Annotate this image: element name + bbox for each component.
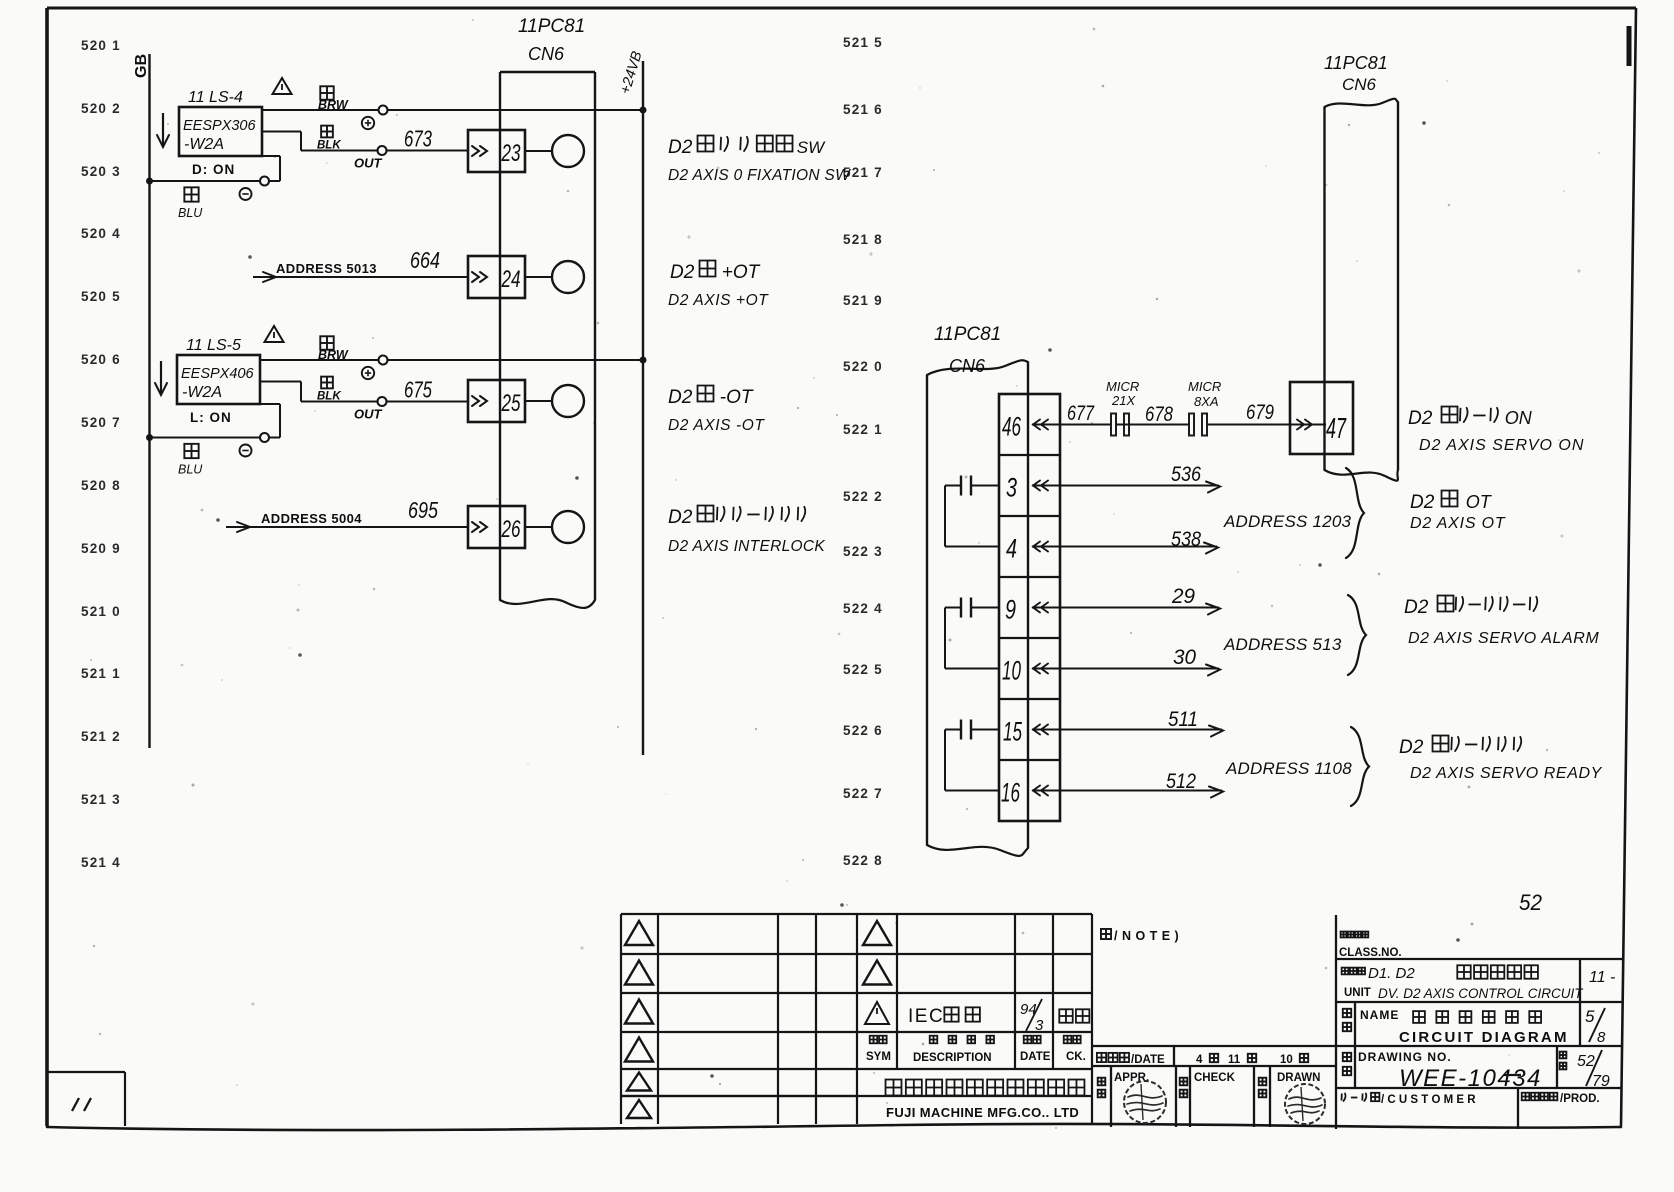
svg-text:DESCRIPTION: DESCRIPTION [913, 1052, 992, 1064]
svg-text:538: 538 [1171, 528, 1201, 551]
svg-text:D2: D2 [668, 137, 693, 158]
svg-text:520 2: 520 2 [81, 101, 121, 116]
svg-text:SYM: SYM [866, 1051, 891, 1063]
svg-text:MICR: MICR [1188, 379, 1221, 394]
svg-text:11PC81: 11PC81 [934, 324, 1001, 345]
svg-text:3: 3 [1035, 1017, 1044, 1034]
svg-text:4: 4 [1196, 1054, 1203, 1066]
svg-text:BLU: BLU [178, 206, 203, 220]
svg-text:D2 AXIS OT: D2 AXIS OT [1410, 515, 1506, 532]
svg-text:536: 536 [1171, 463, 1201, 486]
svg-text:521 9: 521 9 [843, 293, 883, 308]
svg-text:11 -: 11 - [1589, 969, 1615, 986]
svg-text:521 1: 521 1 [81, 666, 121, 681]
svg-text:BRW: BRW [318, 98, 349, 112]
svg-text:ADDRESS 1108: ADDRESS 1108 [1225, 759, 1352, 778]
svg-text:520 1: 520 1 [81, 38, 121, 53]
svg-text:BLK: BLK [317, 391, 341, 403]
svg-text:D2: D2 [670, 262, 695, 283]
svg-text:/ C U S T O M E R: / C U S T O M E R [1381, 1094, 1476, 1106]
svg-text:CN6: CN6 [949, 356, 986, 376]
svg-text:26: 26 [501, 516, 521, 543]
svg-text:+OT: +OT [722, 262, 761, 283]
svg-text:678: 678 [1145, 403, 1173, 426]
svg-text:-W2A: -W2A [184, 136, 224, 153]
svg-text:D1. D2: D1. D2 [1368, 965, 1415, 982]
svg-text:FUJI MACHINE MFG.CO.. LTD: FUJI MACHINE MFG.CO.. LTD [886, 1105, 1079, 1120]
svg-text:521 8: 521 8 [843, 232, 883, 247]
svg-text:520 7: 520 7 [81, 415, 121, 430]
svg-text:EESPX306: EESPX306 [183, 118, 256, 134]
svg-text:BRW: BRW [318, 348, 349, 362]
svg-text:16: 16 [1001, 778, 1021, 808]
svg-text:CHECK: CHECK [1194, 1072, 1236, 1084]
svg-text:521 6: 521 6 [843, 102, 883, 117]
svg-text:520 3: 520 3 [81, 164, 121, 179]
svg-text:CK.: CK. [1066, 1051, 1086, 1063]
svg-text:24: 24 [501, 266, 521, 293]
svg-text:673: 673 [404, 126, 432, 152]
svg-text:47: 47 [1326, 413, 1347, 445]
svg-text:L: ON: L: ON [190, 410, 232, 425]
svg-text:10: 10 [1280, 1054, 1293, 1066]
svg-text:3: 3 [1006, 473, 1017, 503]
svg-text:522 0: 522 0 [843, 359, 883, 374]
svg-text:52: 52 [1577, 1053, 1595, 1070]
svg-text:CN6: CN6 [1342, 75, 1377, 94]
svg-text:/PROD.: /PROD. [1560, 1093, 1600, 1105]
svg-text:D2: D2 [1408, 408, 1433, 429]
svg-text:25: 25 [501, 390, 521, 417]
svg-text:511: 511 [1168, 708, 1198, 731]
svg-text:ADDRESS 5013: ADDRESS 5013 [276, 261, 377, 276]
svg-text:D2: D2 [1399, 737, 1424, 758]
svg-text:ON: ON [1505, 408, 1533, 428]
svg-text:D2: D2 [1404, 597, 1429, 618]
svg-text:ADDRESS 1203: ADDRESS 1203 [1223, 512, 1351, 531]
svg-text:D2: D2 [668, 387, 693, 408]
svg-text:CLASS.NO.: CLASS.NO. [1339, 947, 1402, 959]
svg-text:15: 15 [1003, 717, 1023, 747]
svg-text:ADDRESS 5004: ADDRESS 5004 [261, 511, 362, 526]
svg-text:679: 679 [1246, 401, 1274, 424]
svg-text:/DATE: /DATE [1131, 1054, 1165, 1066]
svg-text:GB: GB [133, 54, 150, 78]
svg-text:520 6: 520 6 [81, 352, 121, 367]
svg-text:D2 AXIS INTERLOCK: D2 AXIS INTERLOCK [668, 538, 825, 555]
svg-text:OUT: OUT [354, 156, 383, 171]
svg-text:DV. D2 AXIS CONTROL CIRCUIT: DV. D2 AXIS CONTROL CIRCUIT [1378, 986, 1584, 1001]
svg-text:WEE-10434: WEE-10434 [1399, 1065, 1542, 1092]
svg-text:79: 79 [1592, 1073, 1610, 1090]
svg-text:10: 10 [1002, 656, 1021, 686]
svg-text:512: 512 [1166, 770, 1196, 793]
svg-text:521 4: 521 4 [81, 855, 121, 870]
svg-text:BLK: BLK [317, 140, 341, 152]
svg-text:521 5: 521 5 [843, 35, 883, 50]
svg-text:695: 695 [408, 497, 438, 523]
svg-text:D2 AXIS +OT: D2 AXIS +OT [668, 292, 769, 309]
svg-text:D2 AXIS SERVO READY: D2 AXIS SERVO READY [1410, 765, 1603, 782]
svg-text:DRAWN: DRAWN [1277, 1072, 1320, 1084]
svg-text:4: 4 [1006, 534, 1017, 564]
svg-text:D2 AXIS SERVO ALARM: D2 AXIS SERVO ALARM [1408, 630, 1599, 647]
svg-text:DRAWING NO.: DRAWING NO. [1358, 1050, 1452, 1064]
svg-text:CIRCUIT DIAGRAM: CIRCUIT DIAGRAM [1399, 1029, 1569, 1046]
svg-text:522 4: 522 4 [843, 601, 883, 616]
svg-text:8XA: 8XA [1194, 394, 1219, 409]
svg-text:-OT: -OT [720, 387, 754, 408]
svg-text:52: 52 [1519, 890, 1542, 915]
svg-text:521 3: 521 3 [81, 792, 121, 807]
svg-text:521 2: 521 2 [81, 729, 121, 744]
svg-text:EESPX406: EESPX406 [181, 366, 254, 382]
svg-text:46: 46 [1002, 412, 1022, 442]
svg-text:IEC: IEC [908, 1006, 944, 1027]
svg-text:29: 29 [1171, 585, 1195, 608]
svg-text:UNIT: UNIT [1344, 987, 1371, 999]
svg-text:675: 675 [404, 377, 432, 403]
svg-text:OT: OT [1466, 492, 1493, 512]
svg-text:520 4: 520 4 [81, 226, 121, 241]
svg-text:11: 11 [1228, 1054, 1241, 1066]
svg-text:522 2: 522 2 [843, 489, 883, 504]
svg-text:21X: 21X [1111, 393, 1136, 408]
svg-text:NAME: NAME [1360, 1008, 1399, 1022]
svg-text:D2 AXIS 0 FIXATION SW: D2 AXIS 0 FIXATION SW [668, 167, 851, 184]
svg-text:5: 5 [1585, 1007, 1595, 1026]
svg-text:521 0: 521 0 [81, 604, 121, 619]
svg-text:D: ON: D: ON [192, 162, 235, 177]
svg-text:8: 8 [1597, 1029, 1606, 1046]
svg-text:522 7: 522 7 [843, 786, 883, 801]
svg-text:9: 9 [1005, 595, 1016, 625]
svg-text:APPR.: APPR. [1114, 1072, 1149, 1084]
svg-text:D2 AXIS SERVO ON: D2 AXIS SERVO ON [1419, 437, 1584, 454]
svg-text:SW: SW [797, 138, 826, 157]
svg-text:520 5: 520 5 [81, 289, 121, 304]
svg-text:-W2A: -W2A [182, 384, 222, 401]
svg-text:677: 677 [1067, 402, 1095, 425]
svg-text:D2 AXIS -OT: D2 AXIS -OT [668, 417, 765, 434]
svg-text:11 LS-5: 11 LS-5 [186, 337, 241, 354]
svg-text:522 6: 522 6 [843, 723, 883, 738]
svg-text:MICR: MICR [1106, 379, 1139, 394]
svg-text:30: 30 [1173, 646, 1196, 669]
svg-text:CN6: CN6 [528, 44, 565, 64]
svg-text:664: 664 [410, 247, 440, 273]
svg-text:DATE: DATE [1020, 1051, 1051, 1063]
svg-text:11 LS-4: 11 LS-4 [188, 89, 243, 106]
svg-text:ADDRESS 513: ADDRESS 513 [1223, 635, 1342, 654]
svg-text:23: 23 [501, 140, 521, 167]
svg-text:+24VB: +24VB [618, 49, 646, 96]
svg-text:OUT: OUT [354, 407, 383, 422]
svg-text:BLU: BLU [178, 463, 203, 477]
svg-text:11PC81: 11PC81 [1324, 53, 1388, 73]
svg-text:11PC81: 11PC81 [518, 16, 585, 37]
svg-text:D2: D2 [668, 507, 693, 528]
svg-text:522 8: 522 8 [843, 853, 883, 868]
svg-text:520 9: 520 9 [81, 541, 121, 556]
svg-text:520 8: 520 8 [81, 478, 121, 493]
svg-text:/ N O T E ): / N O T E ) [1114, 929, 1179, 943]
svg-text:522 3: 522 3 [843, 544, 883, 559]
svg-text:522 5: 522 5 [843, 662, 883, 677]
svg-text:D2: D2 [1410, 492, 1435, 513]
svg-text:522 1: 522 1 [843, 422, 883, 437]
